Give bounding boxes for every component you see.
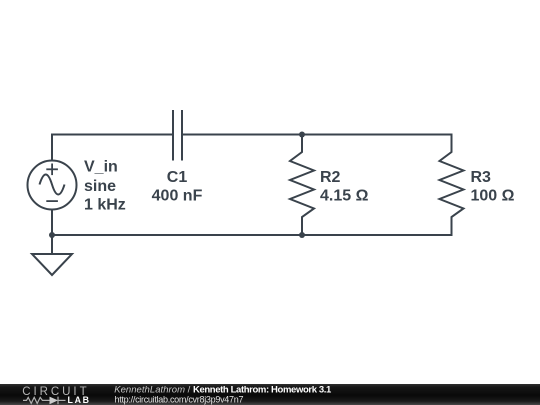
svg-text:4.15 Ω: 4.15 Ω [320, 188, 369, 205]
svg-text:LAB: LAB [68, 395, 91, 405]
svg-text:C1: C1 [167, 169, 188, 186]
svg-text:R2: R2 [320, 169, 341, 186]
svg-text:R3: R3 [471, 169, 492, 186]
svg-text:http://circuitlab.com/cvr8j3p9: http://circuitlab.com/cvr8j3p9v47n7 [115, 394, 244, 404]
svg-text:100 Ω: 100 Ω [471, 188, 515, 205]
svg-text:1 kHz: 1 kHz [84, 197, 126, 214]
svg-text:V_in: V_in [84, 158, 118, 175]
svg-text:sine: sine [84, 178, 116, 195]
svg-text:400 nF: 400 nF [152, 188, 203, 205]
